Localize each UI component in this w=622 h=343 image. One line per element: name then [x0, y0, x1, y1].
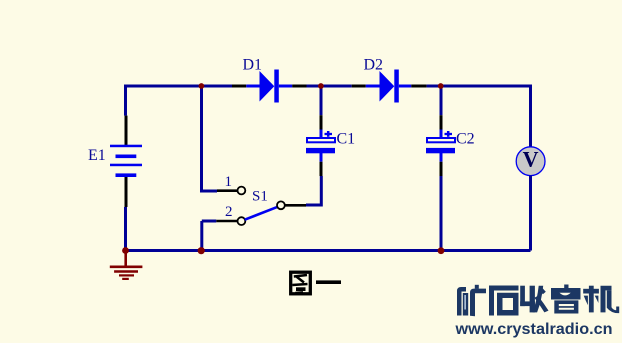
svg-text:2: 2 [225, 204, 233, 220]
capacitor C1 [306, 130, 335, 162]
wire voltmeter top [529, 85, 532, 148]
svg-text:D2: D2 [364, 57, 384, 74]
junction node bottom rail / battery / ground [122, 247, 129, 254]
capacitor C2 top pin [440, 115, 443, 130]
glyph 机 [583, 286, 619, 313]
wire switch branch to bottom rail [202, 221, 217, 251]
battery E1 bottom pin [125, 177, 128, 207]
svg-text:S1: S1 [252, 189, 268, 205]
diode D2 left pin [352, 85, 366, 88]
wire top rail middle segment [307, 85, 352, 88]
svg-text:V: V [523, 147, 539, 172]
glyph 音 [551, 285, 581, 314]
wire C2 bottom vertical [440, 176, 443, 251]
wire left vertical (bottom) [124, 207, 127, 251]
wire bottom rail [124, 249, 531, 252]
diode D1 left pin [232, 85, 246, 88]
capacitor C1 top pin [320, 115, 323, 130]
svg-text:www.crystalradio.cn: www.crystalradio.cn [454, 321, 612, 338]
glyph 矿 [457, 285, 486, 316]
wire switch branch from top rail [202, 86, 218, 191]
diode D1 [246, 70, 292, 103]
wire left vertical (top) [124, 85, 127, 116]
wire C1 branch vertical [320, 86, 323, 115]
ground [110, 251, 143, 279]
glyph 收 [520, 286, 548, 313]
voltmeter V [516, 147, 545, 176]
capacitor C1 bottom pin [320, 162, 323, 176]
switch S1 blade [245, 207, 278, 220]
switch S1 contact 1 [238, 187, 246, 195]
svg-text:C1: C1 [337, 131, 356, 148]
svg-text:D1: D1 [243, 57, 263, 74]
switch S1 contact 2 pin [216, 220, 237, 223]
watermark logo 矿石收音机 [457, 285, 619, 317]
switch S1 common contact [277, 201, 285, 209]
wire top rail right segment [427, 85, 531, 88]
junction node top rail / C2 [438, 83, 444, 89]
capacitor C2 bottom pin [440, 162, 443, 176]
svg-text:C2: C2 [456, 131, 475, 148]
junction node top rail / C1 [318, 83, 324, 89]
switch S1 contact 1 pin [217, 189, 237, 192]
glyph 石 [489, 286, 519, 316]
junction node top rail / switch branch [199, 83, 205, 89]
switch S1 common pin [285, 204, 306, 207]
diode D1 right pin [292, 85, 306, 88]
junction node bottom rail / switch branch [198, 247, 205, 254]
svg-text:1: 1 [225, 174, 233, 190]
wire C2 branch vertical [440, 86, 443, 115]
caption 图一 (figure one) [291, 272, 341, 294]
junction node bottom rail / C2 [438, 247, 445, 254]
wire C1 to switch common [306, 176, 321, 205]
wire voltmeter bottom [529, 176, 532, 251]
battery E1 [110, 145, 142, 177]
wire top rail left segment [126, 85, 233, 88]
svg-text:E1: E1 [88, 147, 106, 164]
diode D2 [366, 70, 412, 103]
diode D2 right pin [411, 85, 426, 88]
capacitor C2 [426, 130, 455, 162]
switch S1 contact 2 [238, 217, 246, 225]
battery E1 top pin [125, 116, 128, 146]
